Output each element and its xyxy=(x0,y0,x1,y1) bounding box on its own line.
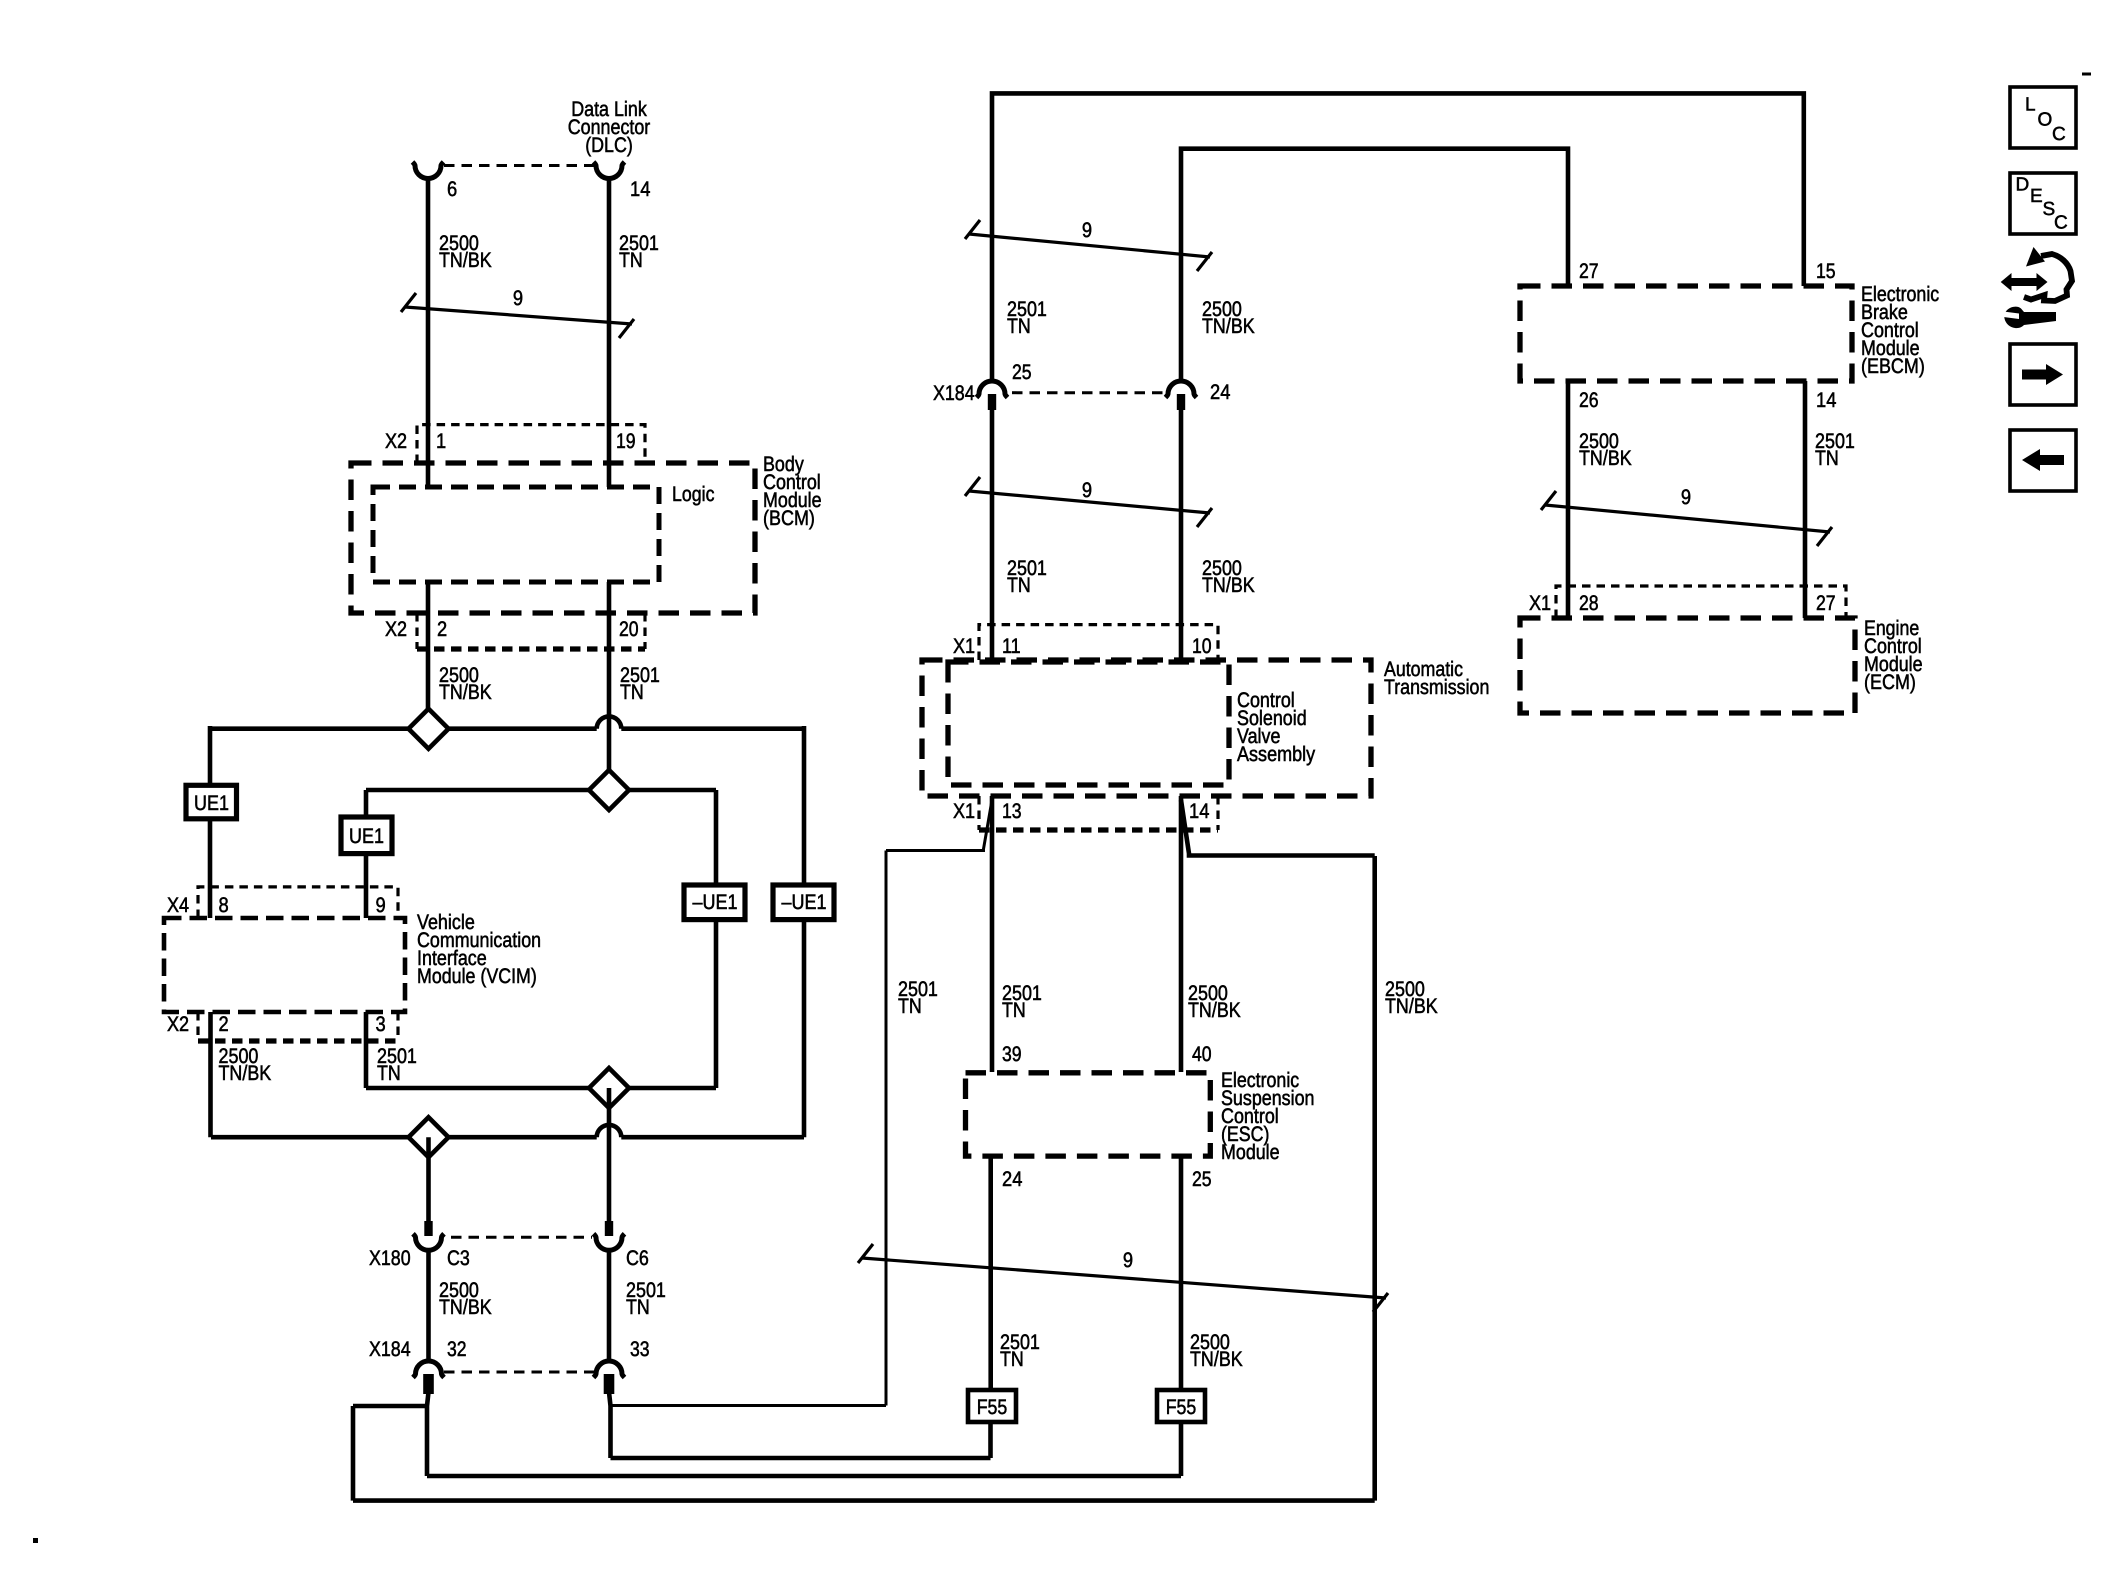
svg-text:TN: TN xyxy=(1007,315,1031,338)
svg-text:25: 25 xyxy=(1012,361,1032,384)
svg-text:(ECM): (ECM) xyxy=(1864,671,1916,694)
connector row BCM X2 pins 2 20 xyxy=(385,613,645,649)
svg-text:(DLC): (DLC) xyxy=(585,134,633,157)
connector X184 pin 24 cap xyxy=(1166,381,1197,398)
svg-text:X184: X184 xyxy=(933,382,975,405)
wire left drop to UE1 xyxy=(208,726,213,785)
value 2501 TN above F55 left xyxy=(1000,1331,1040,1371)
connector X180 C3 cup xyxy=(413,1234,444,1251)
junction diamond on line 3 xyxy=(589,1068,629,1108)
svg-text:6: 6 xyxy=(447,178,457,201)
svg-text:10: 10 xyxy=(1192,635,1212,658)
svg-text:1: 1 xyxy=(436,430,446,453)
svg-text:F55: F55 xyxy=(1166,1396,1197,1419)
svg-text:2: 2 xyxy=(437,618,447,641)
svg-text:UE1: UE1 xyxy=(349,825,384,848)
svg-text:(BCM): (BCM) xyxy=(763,507,815,530)
connector row AT X1 pins 13 14 xyxy=(953,796,1218,830)
fuse F55 right box xyxy=(1157,1390,1205,1422)
svg-text:20: 20 xyxy=(619,618,639,641)
svg-text:3: 3 xyxy=(376,1013,386,1036)
wire VCIM X2-3 down to line 3 xyxy=(364,1012,369,1088)
svg-text:Assembly: Assembly xyxy=(1237,743,1316,766)
label Automatic Transmission xyxy=(1384,658,1489,699)
svg-text:TN: TN xyxy=(1000,1348,1024,1371)
svg-text:15: 15 xyxy=(1816,260,1836,283)
dot bottom left xyxy=(33,1538,38,1543)
svg-text:32: 32 xyxy=(447,1338,467,1361)
wire bus line 1 right segment xyxy=(621,726,804,731)
svg-text:14: 14 xyxy=(630,178,651,201)
wire AT X1-13 down xyxy=(990,796,995,1072)
value 2500 TN/BK X180 xyxy=(439,1279,492,1319)
connector X184 pin 25 stub xyxy=(988,394,996,410)
junction diamond on line 2 xyxy=(589,770,629,810)
icon left arrow box xyxy=(2010,430,2076,491)
svg-text:C3: C3 xyxy=(447,1247,470,1270)
svg-text:C: C xyxy=(2054,213,2068,234)
connector DLC pin 14 cup xyxy=(594,162,625,179)
label Engine Control Module (ECM) xyxy=(1864,617,1923,694)
value 2500 TN/BK outer right xyxy=(1385,978,1438,1018)
svg-text:24: 24 xyxy=(1210,381,1231,404)
wire left riser down xyxy=(351,1406,356,1501)
wire C6 to X184-33 xyxy=(607,1253,612,1362)
connector row AT X1 pins 11 10 xyxy=(953,625,1218,660)
value 2500 TN/BK upper middle xyxy=(1202,298,1255,338)
svg-text:25: 25 xyxy=(1192,1168,1212,1191)
svg-text:X184: X184 xyxy=(369,1338,411,1361)
svg-text:TN: TN xyxy=(1002,999,1026,1022)
value 2500 TN/BK below VCIM xyxy=(219,1045,272,1085)
svg-text:9: 9 xyxy=(513,287,523,310)
connector X184 pin 24 stub xyxy=(1177,394,1185,410)
bus 9 symbol DLC section xyxy=(401,287,634,338)
connector X184 pin 33 cap xyxy=(594,1361,625,1378)
hop of line 4 over 2501 wire xyxy=(597,1125,622,1137)
svg-text:TN: TN xyxy=(377,1062,401,1085)
module Electronic Brake Control Module (EBCM) box xyxy=(1520,286,1852,381)
connector X184 pin 32 stub xyxy=(423,1374,434,1394)
connector X180 C3 stub xyxy=(424,1221,432,1236)
svg-text:9: 9 xyxy=(1082,219,1092,242)
svg-text:Module (VCIM): Module (VCIM) xyxy=(417,965,537,988)
wire bottom line to F55 left xyxy=(611,1456,991,1461)
wire UE1 to VCIM X4-8 xyxy=(208,819,213,918)
svg-text:X1: X1 xyxy=(1529,592,1551,615)
svg-text:TN/BK: TN/BK xyxy=(1190,1348,1243,1371)
bus 9 symbol ESC section xyxy=(858,1244,1388,1312)
wire right drop line1 to -UE1 xyxy=(802,726,807,885)
svg-text:9: 9 xyxy=(1681,486,1691,509)
svg-text:X2: X2 xyxy=(385,618,407,641)
DLC connector dashed line xyxy=(444,164,594,167)
svg-text:39: 39 xyxy=(1002,1043,1022,1066)
wire outermost bottom line xyxy=(353,1498,1375,1503)
wire 2501 TN from BCM X2-20 to junction xyxy=(607,582,612,790)
svg-text:TN/BK: TN/BK xyxy=(1579,447,1632,470)
value 2500 TN/BK xyxy=(439,232,492,272)
value 2501 TN xyxy=(620,664,660,704)
wire riser under F55 left xyxy=(988,1422,993,1458)
value 2500 TN/BK mid xyxy=(1202,557,1255,597)
wire AT X1-14 down xyxy=(1179,796,1184,1072)
module Body Control Module (BCM) box xyxy=(351,463,755,613)
wire line2 right drop to -UE1 first xyxy=(714,790,719,885)
connector row VCIM X2 pins 2 3 xyxy=(167,1012,398,1041)
X184 connector dashed line xyxy=(444,1371,594,1374)
svg-text:9: 9 xyxy=(1123,1249,1133,1272)
value 2501 TN xyxy=(619,232,659,272)
bus 9 symbol upper middle xyxy=(965,219,1212,271)
svg-text:X1: X1 xyxy=(953,800,975,823)
svg-text:26: 26 xyxy=(1579,389,1599,412)
svg-text:TN: TN xyxy=(898,995,922,1018)
svg-text:D: D xyxy=(2016,175,2030,196)
wire bottom line to F55 right xyxy=(427,1474,1181,1479)
wire branch 14 to ESC right loop xyxy=(1181,800,1375,856)
svg-text:Logic: Logic xyxy=(672,483,715,506)
net label -UE1 box second xyxy=(773,885,834,920)
wire pin33 tail xyxy=(609,1392,611,1458)
svg-text:TN/BK: TN/BK xyxy=(219,1062,272,1085)
svg-text:TN/BK: TN/BK xyxy=(1202,574,1255,597)
svg-text:X180: X180 xyxy=(369,1247,411,1270)
svg-text:13: 13 xyxy=(1002,800,1022,823)
svg-text:X2: X2 xyxy=(167,1013,189,1036)
wire 2501 TN X184-25 to AT X1-11 xyxy=(990,410,995,660)
connector row VCIM X4 pins 8 9 xyxy=(167,887,398,918)
svg-text:L: L xyxy=(2025,95,2036,116)
connector X180 C6 cup xyxy=(594,1234,625,1251)
svg-text:TN: TN xyxy=(1815,447,1839,470)
X184 middle connector dashed line xyxy=(1012,391,1165,394)
value 2500 TN/BK EBCM xyxy=(1579,430,1632,470)
svg-text:TN/BK: TN/BK xyxy=(439,1296,492,1319)
wire bus line 4 right segment xyxy=(621,1135,804,1140)
hop of line 1 over 2501 wire xyxy=(597,716,622,728)
svg-text:Module: Module xyxy=(1221,1141,1280,1164)
svg-text:33: 33 xyxy=(630,1338,650,1361)
wire branch 33 to ESC loop xyxy=(611,1404,887,1407)
svg-text:TN/BK: TN/BK xyxy=(439,681,492,704)
label Vehicle Communication Interface Module (VCIM) xyxy=(417,911,541,988)
wire 2501 TN line3 to X180 C6 xyxy=(607,1088,612,1223)
wire 2500 TN/BK from DLC 6 to BCM X2-1 xyxy=(426,179,431,488)
wire UE1 to VCIM X4-9 xyxy=(364,854,369,918)
wire second line 2500 TN/BK to EBCM 27 xyxy=(1181,149,1568,382)
svg-text:TN/BK: TN/BK xyxy=(1188,999,1241,1022)
wire ESC right loop vertical 2500 TN/BK xyxy=(1372,856,1377,1501)
svg-text:E: E xyxy=(2030,186,2043,207)
svg-text:F55: F55 xyxy=(977,1396,1008,1419)
svg-text:X1: X1 xyxy=(953,635,975,658)
svg-text:–UE1: –UE1 xyxy=(693,891,738,914)
svg-text:14: 14 xyxy=(1816,389,1837,412)
connector X184 pin 33 stub xyxy=(604,1374,615,1394)
connector row BCM X2 pins 1 19 xyxy=(385,425,645,463)
svg-text:TN/BK: TN/BK xyxy=(439,249,492,272)
wire 2500 TN/BK from BCM X2-2 to junction xyxy=(426,582,431,729)
icon DESC box xyxy=(2010,173,2076,234)
module Engine Control Module (ECM) box xyxy=(1520,618,1855,713)
svg-text:19: 19 xyxy=(616,430,636,453)
module Automatic Transmission box xyxy=(922,660,1371,796)
label Electronic Suspension Control (ESC) Module xyxy=(1221,1069,1315,1164)
connector X184 pin 25 cap xyxy=(977,381,1008,398)
svg-text:40: 40 xyxy=(1192,1043,1212,1066)
value 2501 TN below VCIM xyxy=(377,1045,417,1085)
wire C3 to X184-32 xyxy=(426,1253,431,1362)
value 2501 TN EBCM xyxy=(1815,430,1855,470)
value 2500 TN/BK inner right xyxy=(1188,982,1241,1022)
svg-text:24: 24 xyxy=(1002,1168,1023,1191)
icon LOC box xyxy=(2010,87,2076,148)
icon arrows and wrench xyxy=(2001,247,2072,328)
connector DLC pin 6 cup xyxy=(413,162,444,179)
X180 connector dashed line xyxy=(451,1236,592,1239)
bus 9 symbol middle second xyxy=(965,477,1212,527)
connector X184 pin 32 cap xyxy=(413,1361,444,1377)
svg-text:X2: X2 xyxy=(385,430,407,453)
svg-text:UE1: UE1 xyxy=(194,792,229,815)
svg-text:TN: TN xyxy=(619,249,643,272)
label Body Control Module (BCM) xyxy=(763,453,822,530)
bus 9 symbol EBCM section xyxy=(1541,486,1832,546)
net label UE1 box second xyxy=(341,817,392,854)
svg-text:O: O xyxy=(2038,110,2053,131)
svg-text:TN: TN xyxy=(626,1296,650,1319)
svg-text:TN/BK: TN/BK xyxy=(1202,315,1255,338)
svg-text:X4: X4 xyxy=(167,894,189,917)
svg-text:8: 8 xyxy=(219,894,229,917)
wire 2500 TN/BK EBCM 26 to ECM 28 xyxy=(1566,381,1571,618)
svg-text:(EBCM): (EBCM) xyxy=(1861,355,1925,378)
icon right arrow box xyxy=(2010,344,2076,405)
svg-text:2: 2 xyxy=(219,1013,229,1036)
wire branch 32 to left riser xyxy=(353,1404,427,1409)
svg-text:C: C xyxy=(2052,124,2066,145)
label Control Solenoid Valve Assembly xyxy=(1237,689,1316,766)
svg-text:14: 14 xyxy=(1189,800,1210,823)
wire bus line 3 xyxy=(366,1086,716,1091)
value 2501 TN inner left xyxy=(1002,982,1042,1022)
wire -UE1 second to line 4 xyxy=(802,920,807,1138)
svg-text:11: 11 xyxy=(1002,635,1021,658)
connector row ECM X1 pins 28 27 xyxy=(1529,586,1846,618)
wire bus line 2 xyxy=(366,788,716,793)
label Electronic Brake Control Module (EBCM) xyxy=(1861,283,1939,378)
wire bus line 4 left segment xyxy=(211,1135,597,1140)
tick mark top right xyxy=(2082,73,2091,76)
svg-text:–UE1: –UE1 xyxy=(782,891,827,914)
wire 2500 TN/BK X184-24 to AT X1-10 xyxy=(1179,410,1184,660)
wire VCIM X2-2 down to line 4 xyxy=(208,1012,213,1137)
fuse F55 left box xyxy=(968,1390,1016,1422)
wire bus line 1 left segment xyxy=(210,726,597,731)
net label UE1 box xyxy=(186,785,237,819)
svg-text:Transmission: Transmission xyxy=(1384,676,1489,699)
svg-text:27: 27 xyxy=(1579,260,1599,283)
value 2501 TN outer left xyxy=(898,978,938,1018)
label Data Link Connector (DLC) xyxy=(568,98,651,157)
value 2501 TN upper middle xyxy=(1007,298,1047,338)
wire 2500 TN/BK line4 to X180 C3 xyxy=(426,1137,431,1223)
svg-text:27: 27 xyxy=(1816,592,1836,615)
wire riser under F55 right xyxy=(1179,1422,1184,1476)
block Control Solenoid Valve Assembly box xyxy=(948,662,1229,785)
value 2500 TN/BK above F55 right xyxy=(1190,1331,1243,1371)
svg-text:9: 9 xyxy=(376,894,386,917)
svg-text:28: 28 xyxy=(1579,592,1599,615)
module Electronic Suspension Control (ESC) box xyxy=(966,1073,1211,1156)
svg-text:9: 9 xyxy=(1082,479,1092,502)
wire ESC 25 to F55 xyxy=(1179,1156,1184,1390)
wire ESC 24 to F55 xyxy=(988,1156,993,1390)
value 2501 TN X180 xyxy=(626,1279,666,1319)
wire top line 2501 TN to EBCM 15 xyxy=(992,93,1804,381)
svg-text:TN/BK: TN/BK xyxy=(1385,995,1438,1018)
module Vehicle Communication Interface Module (VCIM) box xyxy=(164,918,405,1012)
block Logic box inside BCM xyxy=(373,487,659,582)
wire 2501 TN from DLC 14 to BCM X2-19 xyxy=(607,179,612,488)
wire branch 13 to ESC left loop xyxy=(886,800,992,851)
wire pin32 tail xyxy=(427,1392,429,1476)
value 2501 TN mid xyxy=(1007,557,1047,597)
svg-text:TN: TN xyxy=(1007,574,1031,597)
junction diamond on line 1 xyxy=(409,709,449,749)
svg-text:TN: TN xyxy=(620,681,644,704)
junction diamond on line 4 xyxy=(409,1117,449,1157)
net label -UE1 box first xyxy=(684,885,745,920)
wire drop to UE1 second xyxy=(364,790,369,817)
svg-text:C6: C6 xyxy=(626,1247,649,1270)
wire ESC left loop vertical 2501 TN xyxy=(885,851,888,1406)
wire -UE1 first to line 3 xyxy=(714,920,719,1088)
connector X180 C6 stub xyxy=(605,1221,613,1236)
value 2500 TN/BK xyxy=(439,664,492,704)
wire 2501 TN EBCM 14 to ECM 27 xyxy=(1803,381,1808,618)
